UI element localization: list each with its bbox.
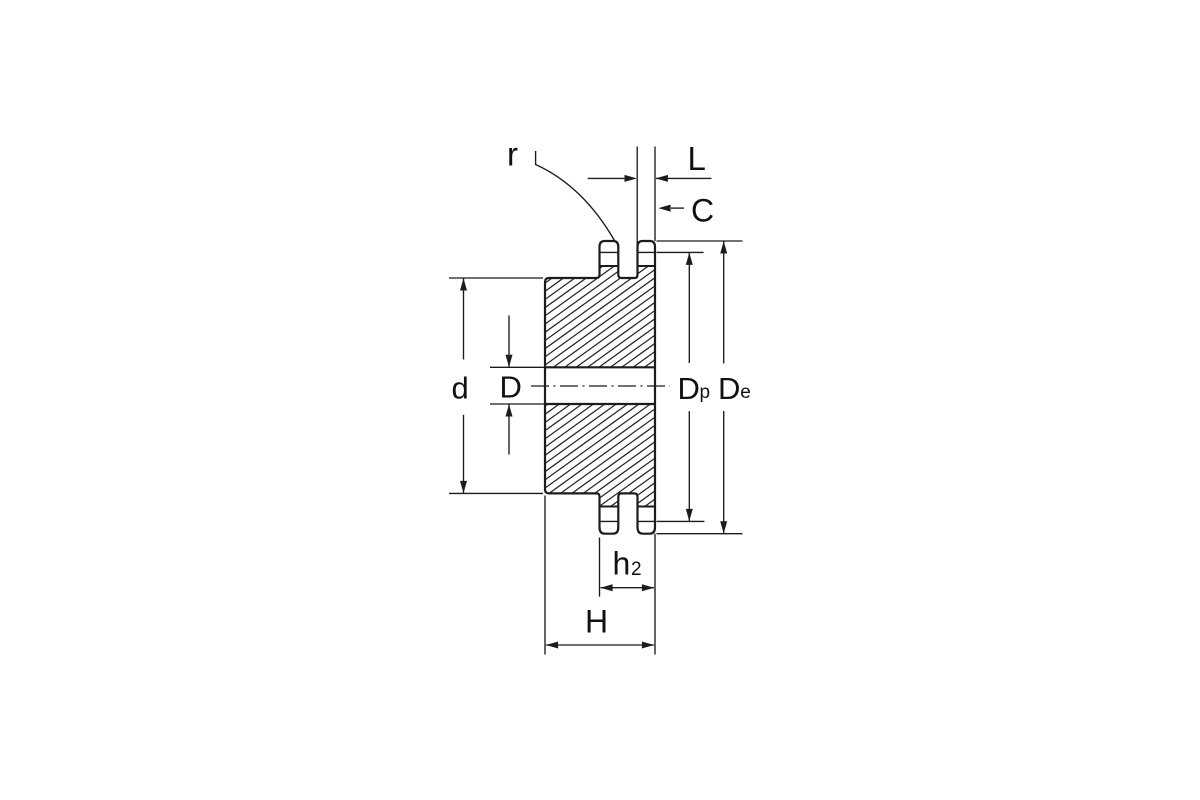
svg-text:C: C — [691, 192, 714, 228]
svg-text:d: d — [452, 371, 469, 406]
dimension line h2 with arrows — [601, 587, 655, 589]
svg-text:p: p — [700, 382, 711, 403]
bore bottom edge — [545, 403, 655, 405]
extension lines (De) — [657, 240, 743, 242]
extension line top (d) — [449, 277, 543, 279]
hatching: lower hub section — [539, 101, 661, 632]
dimension line d with arrows — [463, 278, 465, 359]
pitch line, top teeth — [600, 251, 619, 253]
svg-text:D: D — [500, 370, 522, 405]
extension line left (H) — [544, 496, 546, 655]
svg-text:L: L — [688, 140, 706, 177]
svg-text:2: 2 — [631, 559, 642, 580]
svg-text:H: H — [585, 604, 608, 640]
dimension arrows D — [508, 316, 510, 367]
svg-text:D: D — [718, 371, 740, 406]
dimension line De with arrows — [723, 241, 725, 363]
extension line bottom (d) — [449, 492, 543, 494]
dimension line H with arrows — [546, 644, 654, 646]
bore top edge — [545, 366, 655, 368]
extension line at tooth inner face (x=637) — [636, 147, 638, 247]
arrow C — [671, 207, 684, 209]
extension line at tooth outer face (x=655) — [654, 147, 656, 242]
dimension line Dp with arrows — [688, 253, 690, 363]
centerline (dash-dot) — [531, 385, 670, 387]
leader line for r — [536, 151, 615, 241]
extension lines (Dp) — [657, 251, 704, 253]
extension lines (D) — [490, 366, 545, 368]
sprocket body and teeth outline — [545, 241, 655, 534]
root line, bottom teeth — [600, 506, 619, 508]
svg-text:h: h — [613, 546, 631, 582]
pitch line, bottom teeth — [600, 520, 619, 522]
root line, top teeth — [600, 265, 619, 267]
svg-text:D: D — [678, 371, 700, 406]
svg-text:r: r — [507, 136, 518, 173]
svg-text:e: e — [740, 382, 751, 403]
extension line left (h2) — [599, 538, 601, 597]
hatching: upper hub section — [539, 101, 661, 632]
dimension line L — [588, 177, 626, 179]
